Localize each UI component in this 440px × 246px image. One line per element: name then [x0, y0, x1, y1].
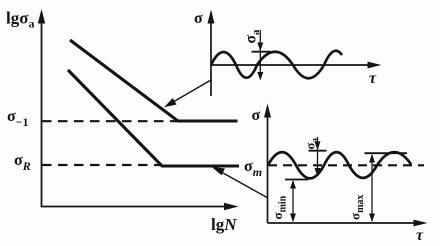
bottom inset sigma_a dimension arrow — [315, 137, 321, 177]
bottom inset sine wave — [268, 152, 411, 178]
bottom inset sigma axis — [264, 104, 271, 224]
lower S-N curve (sigma_R) — [68, 70, 239, 166]
top inset peak reference tick — [252, 51, 271, 53]
bottom inset tau axis — [268, 220, 428, 227]
peak reference tick for sigma_max — [365, 152, 408, 154]
dashed level line sigma_R — [42, 164, 162, 166]
main y-axis (lg sigma_a) — [38, 9, 45, 207]
top inset sine wave — [211, 51, 342, 78]
svg-text:τ: τ — [416, 227, 424, 244]
bottom inset peak tick for sigma_a — [309, 150, 327, 152]
main x-axis (lg N) — [42, 203, 239, 210]
dashed level line sigma_-1 — [42, 120, 177, 122]
svg-text:σ: σ — [194, 10, 203, 27]
svg-text:τ: τ — [369, 70, 377, 87]
svg-text:lgN: lgN — [211, 215, 237, 234]
top inset sigma axis — [208, 10, 215, 97]
svg-text:σ: σ — [252, 107, 261, 124]
top inset tau axis — [211, 62, 382, 69]
leader arrow from top inset to upper curve — [164, 80, 211, 107]
trough reference tick for sigma_min — [285, 179, 309, 181]
top inset sigma_a dimension arrow (two down arrowheads) — [257, 30, 263, 81]
sigma_min dimension double arrow — [290, 180, 296, 222]
upper S-N curve (sigma_-1) — [70, 40, 238, 121]
leader arrow from bottom inset to lower curve — [212, 167, 268, 198]
bottom inset dashed mean line sigma_m — [268, 164, 424, 166]
sigma_max dimension double arrow — [369, 154, 375, 222]
